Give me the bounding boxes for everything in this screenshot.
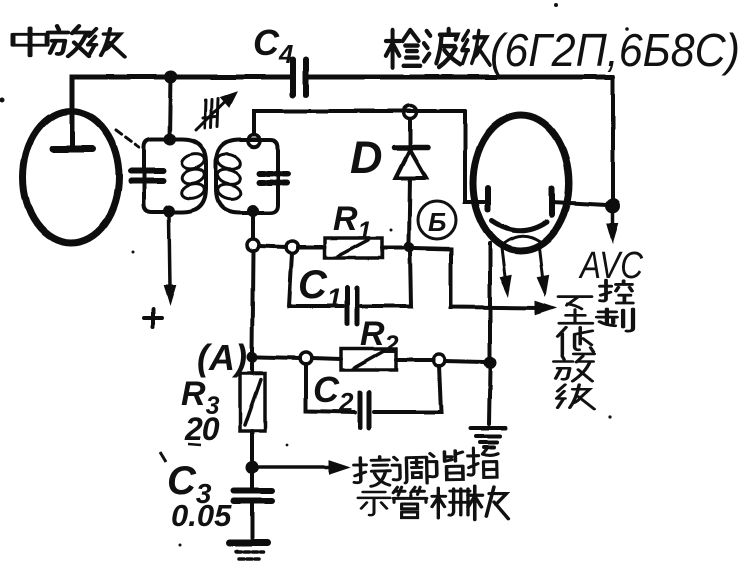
wire V2 right plate to AVC node [552, 202, 607, 205]
text 示管栅极 line2 [358, 486, 508, 520]
text labels (latin/cyrillic) [167, 22, 740, 533]
node dot diode / R1 right [404, 242, 415, 253]
svg-text:20: 20 [184, 411, 220, 447]
capacitor C1 loop [289, 253, 343, 306]
node dot T1 primary top [164, 133, 176, 145]
node dot AVC [606, 199, 621, 214]
diode D [408, 119, 412, 146]
text 中放级 (IF stage) [13, 26, 125, 57]
node circle R2 right [433, 354, 445, 366]
svg-text:Б: Б [428, 207, 446, 237]
text 检波级 (detector stage) [386, 29, 490, 68]
transformer T1 core adjust arrow [196, 92, 236, 130]
wire from R1 right to AF takeoff [414, 248, 540, 308]
resistor R1 [298, 245, 325, 249]
wire secondary bottom down [251, 217, 255, 238]
resistor R3 [250, 363, 254, 373]
node circle diode tap on wire [404, 106, 417, 119]
apostrophe tick before C3 [160, 452, 166, 462]
svg-text:D: D [350, 132, 383, 183]
resistor R2 [341, 349, 396, 370]
node T1 secondary bottom [247, 205, 259, 217]
chinese labels drawn as strokes [13, 26, 633, 520]
svg-text:(6Г2П,6Б8С): (6Г2П,6Б8С) [490, 24, 740, 76]
node dot ground bus [484, 357, 497, 370]
node circle T1 secondary top [248, 135, 260, 147]
arrow to tuning indicator [259, 465, 334, 469]
wire V2 cathode down [488, 243, 492, 357]
V2 left diode plate [485, 188, 491, 210]
arrow V2 pin down right [539, 248, 543, 281]
transformer T1 secondary loops [216, 152, 242, 201]
ground bottom [229, 540, 267, 547]
node dot C3 top [246, 461, 259, 474]
wire V1 to transformer smudge [116, 130, 139, 147]
transformer T1 primary winding outline [144, 139, 206, 212]
node circle R2 left [300, 352, 312, 364]
V2 cathode arcs [492, 221, 547, 231]
svg-text:0.05: 0.05 [171, 498, 232, 533]
label + supply [144, 309, 162, 327]
svg-text:(A): (A) [197, 337, 247, 378]
node T1 primary bottom [163, 205, 175, 217]
capacitor across T1 primary [131, 171, 163, 181]
V2 right diode plate [549, 188, 555, 215]
wire junction down to node A [252, 251, 253, 352]
ground right [471, 428, 506, 447]
arrow to AF stage [536, 302, 554, 314]
node junction dot on top bus [165, 71, 178, 84]
wire A to R2 [258, 357, 300, 358]
wire arrow from T1 primary bottom (supply +) [169, 217, 170, 288]
node A upper junction circle [247, 239, 259, 251]
transformer T1 secondary winding outline [216, 140, 278, 213]
arrow AVC down [611, 213, 615, 227]
tube V1 (IF amplifier) envelope [23, 111, 119, 243]
wire T1 primary top to bus [170, 77, 171, 139]
wire top bus from V1 plate to C4 and detector [72, 77, 290, 146]
node label (B) [418, 201, 456, 239]
tick mark under value 2.0 [188, 444, 201, 445]
scan speckles [0, 3, 629, 547]
arrow V2 pin down left [502, 248, 506, 281]
node circle R1 left [286, 241, 298, 253]
text 至低放级 (to AF stage, vertical) [554, 297, 595, 409]
capacitor across T1 secondary [259, 174, 289, 183]
node dot A [247, 352, 258, 363]
wire ground bus down [489, 369, 490, 424]
capacitor C3 [250, 473, 254, 488]
capacitor C2 loop [306, 364, 355, 412]
tube V2 (detector) envelope [473, 115, 569, 251]
tube V1 plate [53, 146, 92, 153]
wire secondary top to detector tube plate [254, 111, 465, 135]
wire right bus down from top [611, 77, 615, 199]
wire to R1 left junction [259, 246, 286, 247]
transformer T1 primary loops [180, 151, 206, 200]
text 接调谐指 line1 [354, 447, 499, 487]
text 控制 (control, vertical) [597, 280, 633, 331]
capacitor C4 [293, 59, 306, 95]
svg-text:AVC: AVC [578, 245, 643, 287]
